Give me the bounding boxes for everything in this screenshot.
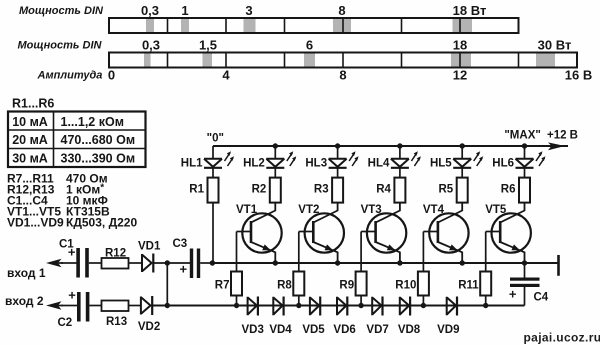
svg-text:VD3: VD3 (242, 324, 264, 336)
svg-text:0,3: 0,3 (142, 38, 160, 53)
svg-text:вход 2: вход 2 (5, 294, 44, 308)
svg-text:HL5: HL5 (430, 158, 452, 170)
svg-text:R3: R3 (314, 184, 329, 196)
svg-text:"0": "0" (207, 133, 224, 145)
svg-text:+: + (509, 287, 517, 302)
svg-text:VT5: VT5 (485, 204, 507, 216)
svg-text:HL4: HL4 (368, 158, 390, 170)
svg-text:470...680 Ом: 470...680 Ом (61, 133, 136, 147)
svg-text:HL3: HL3 (305, 158, 327, 170)
svg-text:КД503, Д220: КД503, Д220 (66, 216, 137, 230)
svg-text:VD2: VD2 (138, 321, 160, 333)
svg-text:R13: R13 (106, 316, 127, 328)
svg-text:R9: R9 (339, 280, 354, 292)
svg-text:0,3: 0,3 (141, 3, 159, 18)
svg-text:R4: R4 (376, 184, 391, 196)
svg-text:16 В: 16 В (565, 68, 592, 83)
svg-text:VD8: VD8 (398, 324, 421, 336)
svg-text:Мощность DIN: Мощность DIN (19, 5, 104, 17)
svg-text:HL1: HL1 (181, 158, 203, 170)
svg-text:VT3: VT3 (361, 204, 382, 216)
svg-text:18 Вт: 18 Вт (453, 3, 487, 18)
svg-text:20 мА: 20 мА (12, 133, 48, 147)
svg-text:VD9: VD9 (437, 324, 459, 336)
svg-text:6: 6 (306, 38, 313, 53)
svg-text:3: 3 (245, 3, 252, 18)
svg-text:HL2: HL2 (243, 158, 265, 170)
svg-text:1: 1 (181, 3, 188, 18)
svg-text:330...390 Ом: 330...390 Ом (61, 152, 136, 166)
svg-text:+: + (68, 288, 76, 303)
svg-text:C4: C4 (534, 292, 549, 304)
svg-text:VD1: VD1 (138, 241, 161, 253)
svg-text:вход 1: вход 1 (7, 266, 46, 280)
svg-text:R10: R10 (395, 280, 416, 292)
svg-text:R7: R7 (215, 280, 230, 292)
svg-text:1,5: 1,5 (199, 38, 217, 53)
svg-text:18: 18 (453, 38, 467, 53)
svg-text:Мощность DIN: Мощность DIN (18, 40, 103, 52)
svg-text:R12: R12 (105, 248, 126, 260)
svg-text:VT2: VT2 (298, 204, 319, 216)
svg-text:VD7: VD7 (366, 324, 388, 336)
svg-text:VT1: VT1 (236, 204, 258, 216)
svg-text:+12 В: +12 В (547, 130, 578, 142)
svg-text:4: 4 (222, 68, 230, 83)
svg-text:8: 8 (338, 3, 345, 18)
svg-text:12: 12 (453, 68, 467, 83)
svg-text:30 Вт: 30 Вт (538, 38, 572, 53)
svg-text:+: + (68, 245, 76, 260)
svg-text:VD1...VD9: VD1...VD9 (7, 216, 64, 230)
svg-text:pajai.ucoz.ru: pajai.ucoz.ru (524, 331, 600, 345)
svg-text:HL6: HL6 (492, 158, 514, 170)
svg-text:+: + (180, 262, 188, 277)
svg-text:C2: C2 (58, 317, 73, 329)
svg-text:10 мА: 10 мА (12, 115, 48, 129)
svg-text:R8: R8 (277, 280, 292, 292)
svg-text:R11: R11 (458, 280, 479, 292)
svg-text:30 мА: 30 мА (12, 152, 48, 166)
svg-text:R5: R5 (438, 184, 453, 196)
svg-text:"MAX": "MAX" (504, 130, 540, 142)
svg-text:VD4: VD4 (269, 324, 292, 336)
svg-text:8: 8 (339, 68, 346, 83)
svg-text:R1: R1 (189, 184, 204, 196)
svg-text:VD6: VD6 (333, 324, 355, 336)
svg-text:0: 0 (108, 68, 115, 83)
svg-text:R1...R6: R1...R6 (12, 96, 54, 110)
svg-text:VD5: VD5 (302, 324, 325, 336)
svg-text:R2: R2 (252, 184, 267, 196)
svg-text:C3: C3 (173, 238, 188, 250)
svg-text:1...1,2 кОм: 1...1,2 кОм (61, 115, 124, 129)
svg-text:R6: R6 (501, 184, 516, 196)
svg-text:Амплитуда: Амплитуда (37, 70, 103, 82)
svg-text:VT4: VT4 (423, 204, 445, 216)
